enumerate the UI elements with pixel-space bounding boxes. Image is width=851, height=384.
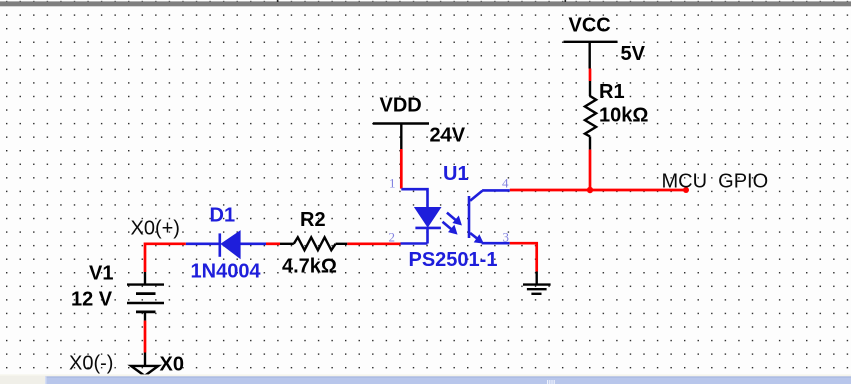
- battery V1: [127, 272, 164, 321]
- svg-text:1: 1: [389, 175, 396, 190]
- svg-text:X0: X0: [160, 354, 184, 376]
- node MCU GPIO endpoint: [683, 187, 689, 193]
- power symbol VDD: [373, 124, 429, 150]
- wire D1 to R2: [266, 242, 280, 245]
- svg-text:MCU GPIO: MCU GPIO: [662, 170, 769, 192]
- svg-text:VDD: VDD: [380, 94, 422, 116]
- wire R2 to U1 pin 2: [347, 242, 400, 245]
- wire diode lead left: [186, 243, 220, 246]
- svg-text:X0(+): X0(+): [131, 218, 180, 240]
- svg-text:4.7kΩ: 4.7kΩ: [282, 256, 337, 278]
- svg-text:R2: R2: [300, 209, 326, 231]
- optocoupler U1: [401, 189, 510, 243]
- svg-text:R1: R1: [599, 81, 625, 103]
- wire V1 to X0: [144, 321, 147, 353]
- resistor R2: [280, 237, 347, 250]
- svg-text:4: 4: [502, 175, 509, 190]
- svg-text:24V: 24V: [430, 125, 466, 147]
- svg-text:U1: U1: [443, 163, 469, 185]
- wire X0(+) to D1: [145, 244, 186, 272]
- resistor R1: [585, 81, 596, 150]
- svg-text:3: 3: [503, 229, 510, 244]
- wire VCC to R1: [589, 69, 592, 82]
- power symbol VCC: [564, 42, 618, 69]
- svg-text:X0(-): X0(-): [69, 352, 113, 374]
- wire MCU GPIO net: [510, 189, 686, 192]
- svg-text:1N4004: 1N4004: [191, 260, 262, 282]
- svg-text:10kΩ: 10kΩ: [599, 104, 648, 126]
- ground: [523, 272, 551, 294]
- wire VDD to U1 pin 1: [400, 149, 403, 189]
- wire U1 pin 3 to ground: [510, 243, 537, 271]
- svg-text:D1: D1: [210, 204, 236, 226]
- wire R1 to node: [589, 150, 592, 190]
- wire diode lead right: [240, 243, 266, 246]
- svg-text:12 V: 12 V: [71, 289, 113, 311]
- svg-text:5V: 5V: [621, 43, 646, 65]
- node junction R1/U1: [587, 187, 593, 193]
- svg-text:2: 2: [389, 229, 396, 244]
- connector X0: [131, 353, 158, 376]
- svg-text:V1: V1: [89, 262, 113, 284]
- svg-text:VCC: VCC: [569, 15, 611, 37]
- diode D1: [220, 231, 240, 258]
- svg-text:PS2501-1: PS2501-1: [409, 249, 498, 271]
